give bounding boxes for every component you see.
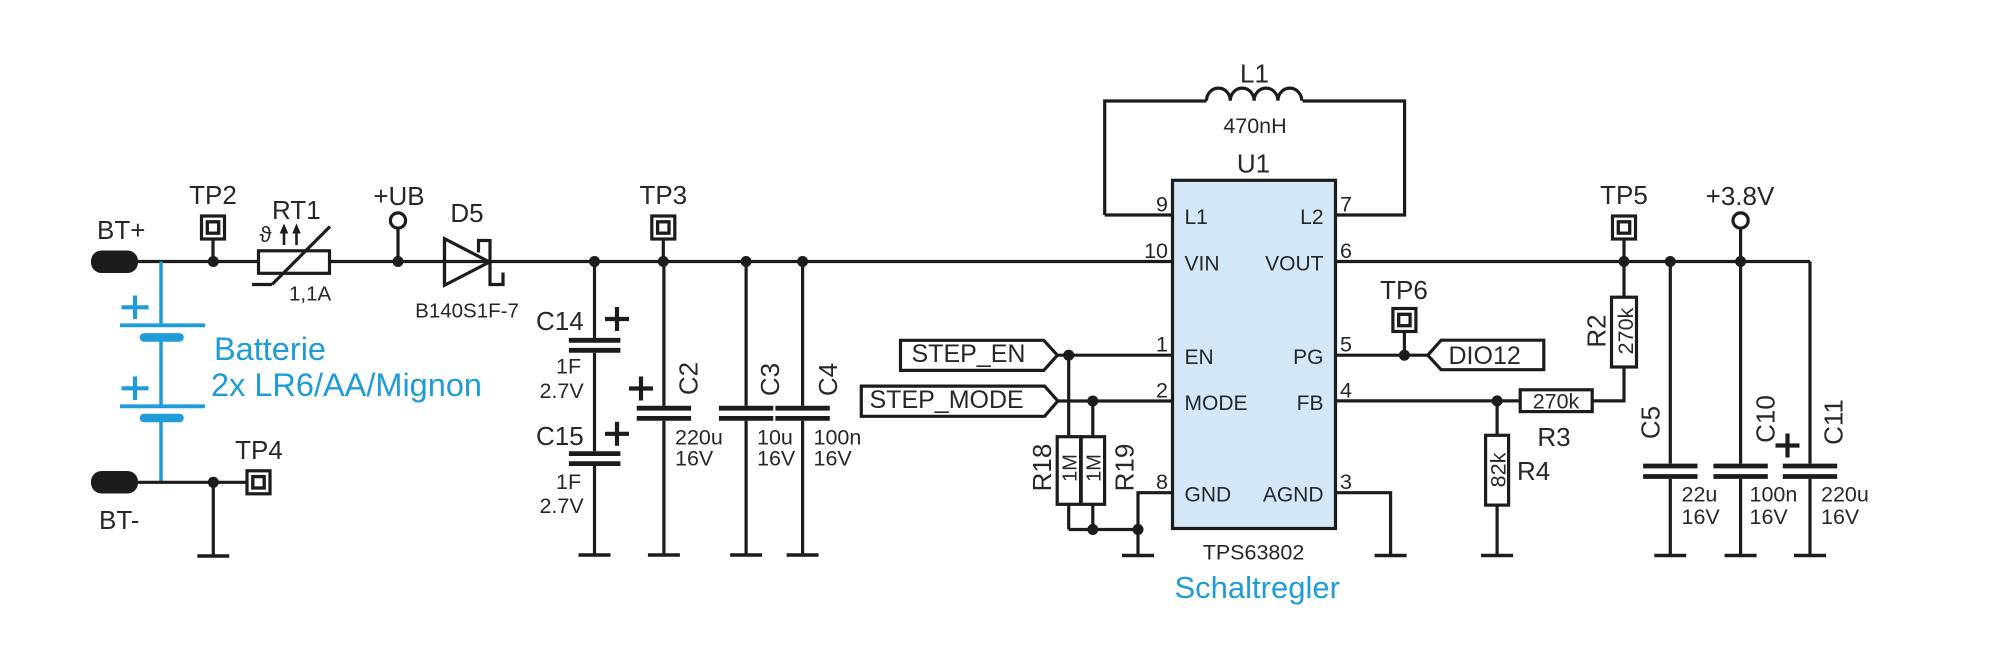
schottky diode D5 B140S1F-7 — [415, 198, 519, 323]
svg-text:DIO12: DIO12 — [1449, 342, 1521, 370]
svg-text:Schaltregler: Schaltregler — [1175, 570, 1340, 605]
svg-text:TP2: TP2 — [189, 180, 237, 210]
svg-text:6: 6 — [1340, 239, 1352, 263]
test point TP4 — [235, 435, 283, 494]
svg-text:82k: 82k — [1487, 452, 1511, 487]
svg-text:C3: C3 — [755, 363, 785, 396]
svg-text:C15: C15 — [536, 421, 584, 451]
svg-text:2.7V: 2.7V — [540, 494, 585, 518]
junction dot TP2/battery — [208, 256, 219, 267]
svg-text:D5: D5 — [450, 198, 483, 228]
svg-text:470nH: 470nH — [1223, 114, 1286, 138]
svg-text:GND: GND — [1185, 484, 1232, 507]
ground AGND — [1375, 554, 1407, 557]
wire pin 3 AGND — [1336, 493, 1391, 554]
svg-text:1,1A: 1,1A — [289, 283, 331, 306]
svg-text:R18: R18 — [1027, 444, 1057, 492]
wire BT- to TP4 — [133, 481, 247, 484]
ground C5 — [1654, 554, 1686, 557]
resistor R2 270k — [1582, 262, 1639, 401]
svg-text:16V: 16V — [814, 447, 853, 471]
capacitor C10 100n 16V — [1713, 262, 1797, 555]
battery BT1 2x LR6 (blue) — [120, 262, 205, 483]
svg-text:C11: C11 — [1819, 399, 1849, 445]
wire pin 5 PG to DIO12 — [1336, 354, 1428, 357]
resistor R4 82k — [1486, 401, 1551, 554]
test point TP5 — [1600, 180, 1648, 262]
svg-text:100n: 100n — [1750, 483, 1798, 507]
junction dot +UB — [393, 256, 404, 267]
svg-text:1M: 1M — [1060, 454, 1082, 482]
svg-text:2x LR6/AA/Mignon: 2x LR6/AA/Mignon — [211, 367, 482, 403]
net flag DIO12 — [1428, 340, 1544, 370]
svg-text:FB: FB — [1297, 392, 1324, 415]
svg-text:16V: 16V — [1682, 505, 1721, 529]
svg-text:VIN: VIN — [1185, 252, 1220, 275]
junction dot MODE/R19 — [1087, 396, 1098, 407]
IC U1 TPS63802 body — [1173, 149, 1336, 565]
net flag STEP_MODE — [861, 386, 1058, 416]
svg-text:U1: U1 — [1237, 149, 1270, 179]
svg-text:1: 1 — [1156, 333, 1168, 357]
svg-text:22u: 22u — [1682, 483, 1718, 507]
wire pin 9 stub — [1105, 213, 1173, 216]
svg-text:+UB: +UB — [373, 181, 424, 211]
svg-text:2: 2 — [1156, 379, 1168, 403]
junction dot PG/TP6 — [1399, 350, 1410, 361]
svg-text:TP3: TP3 — [639, 180, 687, 210]
ground C3 — [730, 553, 762, 556]
svg-text:STEP_MODE: STEP_MODE — [870, 386, 1024, 414]
svg-text:PG: PG — [1293, 346, 1323, 369]
junction dot FB/R4 — [1492, 395, 1503, 406]
svg-text:+3.8V: +3.8V — [1706, 181, 1775, 211]
svg-text:16V: 16V — [1750, 505, 1789, 529]
svg-text:C14: C14 — [536, 306, 584, 336]
battery annotation Batterie 2x LR6/AA/Mignon — [211, 331, 482, 403]
ground R4 — [1481, 554, 1513, 557]
wire BT- to ground — [212, 482, 215, 556]
svg-text:L2: L2 — [1300, 206, 1323, 229]
svg-text:4: 4 — [1340, 379, 1352, 403]
capacitor C11 220u 16V — [1776, 399, 1869, 554]
resistor R18 1M — [1027, 355, 1082, 529]
svg-text:8: 8 — [1156, 470, 1168, 494]
capacitor C14 1F 2.7V — [536, 262, 629, 452]
svg-text:B140S1F-7: B140S1F-7 — [415, 300, 519, 323]
capacitor C4 100n 16V — [775, 262, 861, 555]
resistor R3 270k — [1520, 390, 1592, 453]
svg-text:L1: L1 — [1185, 206, 1208, 229]
net flag STEP_EN — [901, 340, 1058, 370]
junction dot +3.8V/C10 — [1735, 256, 1746, 267]
wire VIN rail BT+ to U1 — [133, 260, 1173, 263]
svg-text:R4: R4 — [1517, 456, 1550, 486]
thermistor RT1 — [252, 195, 331, 306]
svg-text:R19: R19 — [1110, 444, 1140, 492]
inductor L1 470nH — [1207, 59, 1302, 139]
svg-text:16V: 16V — [757, 447, 796, 471]
test point TP2 — [189, 180, 237, 262]
ground C15 — [579, 553, 611, 556]
svg-text:270k: 270k — [1533, 390, 1580, 414]
battery terminal BT+ — [91, 215, 145, 273]
capacitor C15 1F 2.7V — [536, 421, 629, 554]
svg-text:R3: R3 — [1537, 422, 1570, 452]
svg-text:9: 9 — [1156, 193, 1168, 217]
wire inductor loop left — [1105, 101, 1207, 215]
junction dot C14 — [589, 256, 600, 267]
svg-text:16V: 16V — [675, 447, 714, 471]
power net +3.8V — [1706, 181, 1775, 262]
ground BT- — [197, 554, 229, 557]
svg-text:220u: 220u — [1821, 483, 1869, 507]
svg-text:16V: 16V — [1821, 505, 1860, 529]
capacitor C5 22u 16V — [1636, 262, 1721, 555]
power net +UB — [373, 181, 424, 262]
capacitor C2 220u 16V — [629, 262, 723, 555]
wire STEP_MODE to pin 2 — [1058, 399, 1173, 402]
svg-text:C4: C4 — [813, 363, 843, 396]
svg-text:BT+: BT+ — [97, 215, 145, 245]
wire STEP_EN to pin 1 — [1057, 354, 1172, 357]
wire VOUT rail — [1336, 260, 1811, 263]
svg-text:C10: C10 — [1751, 395, 1781, 443]
wire pin 8 GND — [1138, 493, 1173, 554]
svg-text:TP6: TP6 — [1380, 275, 1428, 305]
svg-text:RT1: RT1 — [272, 195, 321, 225]
junction dot BT- — [208, 477, 219, 488]
junction dot C3 — [741, 256, 752, 267]
resistor R19 1M — [1081, 401, 1139, 530]
svg-text:Batterie: Batterie — [214, 331, 326, 367]
svg-text:1F: 1F — [556, 355, 581, 379]
junction dot TP3/C2 — [658, 256, 669, 267]
test point TP3 — [639, 180, 687, 262]
svg-text:270k: 270k — [1614, 307, 1638, 354]
svg-text:MODE: MODE — [1185, 392, 1248, 415]
wire inductor loop right — [1303, 101, 1405, 215]
capacitor C3 10u 16V — [719, 262, 796, 555]
test point TP6 — [1380, 275, 1428, 355]
svg-text:TP5: TP5 — [1600, 180, 1648, 210]
junction dot R19 bottom — [1087, 524, 1098, 535]
svg-text:3: 3 — [1340, 470, 1352, 494]
ground C11 — [1794, 554, 1826, 557]
svg-text:1M: 1M — [1084, 454, 1106, 482]
svg-text:L1: L1 — [1240, 59, 1269, 89]
ground C2 — [648, 553, 680, 556]
svg-text:STEP_EN: STEP_EN — [912, 340, 1026, 368]
junction dot EN/R18 — [1063, 350, 1074, 361]
wire pin 4 FB — [1336, 399, 1521, 402]
svg-text:1F: 1F — [556, 470, 581, 494]
wire R18/R19 bottoms to GND net — [1069, 528, 1138, 531]
svg-text:TPS63802: TPS63802 — [1203, 541, 1305, 565]
svg-text:BT-: BT- — [99, 505, 139, 535]
ground U1 GND — [1122, 554, 1154, 557]
wire VOUT rail corner to C11 — [1808, 262, 1811, 464]
junction dot C4 — [797, 256, 808, 267]
junction dot GND net — [1133, 524, 1144, 535]
junction dot TP5/R2 — [1619, 256, 1630, 267]
svg-text:ϑ: ϑ — [260, 222, 272, 247]
junction dot C5 — [1665, 256, 1676, 267]
svg-text:C2: C2 — [674, 362, 704, 395]
svg-text:5: 5 — [1340, 333, 1352, 357]
svg-text:AGND: AGND — [1263, 484, 1324, 507]
svg-text:R2: R2 — [1582, 314, 1612, 347]
svg-text:10: 10 — [1144, 239, 1168, 263]
svg-text:2.7V: 2.7V — [540, 379, 585, 403]
svg-text:7: 7 — [1340, 193, 1352, 217]
ground C4 — [787, 553, 819, 556]
svg-text:TP4: TP4 — [235, 435, 283, 465]
battery terminal BT- — [91, 471, 139, 535]
svg-text:C5: C5 — [1636, 406, 1666, 439]
ground C10 — [1725, 554, 1757, 557]
svg-text:VOUT: VOUT — [1265, 252, 1324, 275]
svg-text:EN: EN — [1185, 346, 1214, 369]
